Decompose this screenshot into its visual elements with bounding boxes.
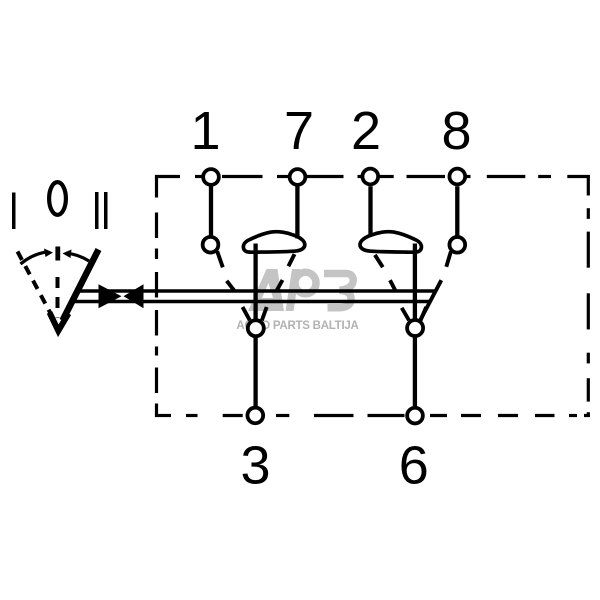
svg-text:2: 2: [351, 101, 381, 161]
svg-text:3: 3: [240, 436, 270, 496]
svg-text:8: 8: [441, 101, 471, 161]
svg-text:7: 7: [284, 101, 314, 161]
svg-text:6: 6: [399, 436, 429, 496]
svg-text:1: 1: [190, 101, 220, 161]
